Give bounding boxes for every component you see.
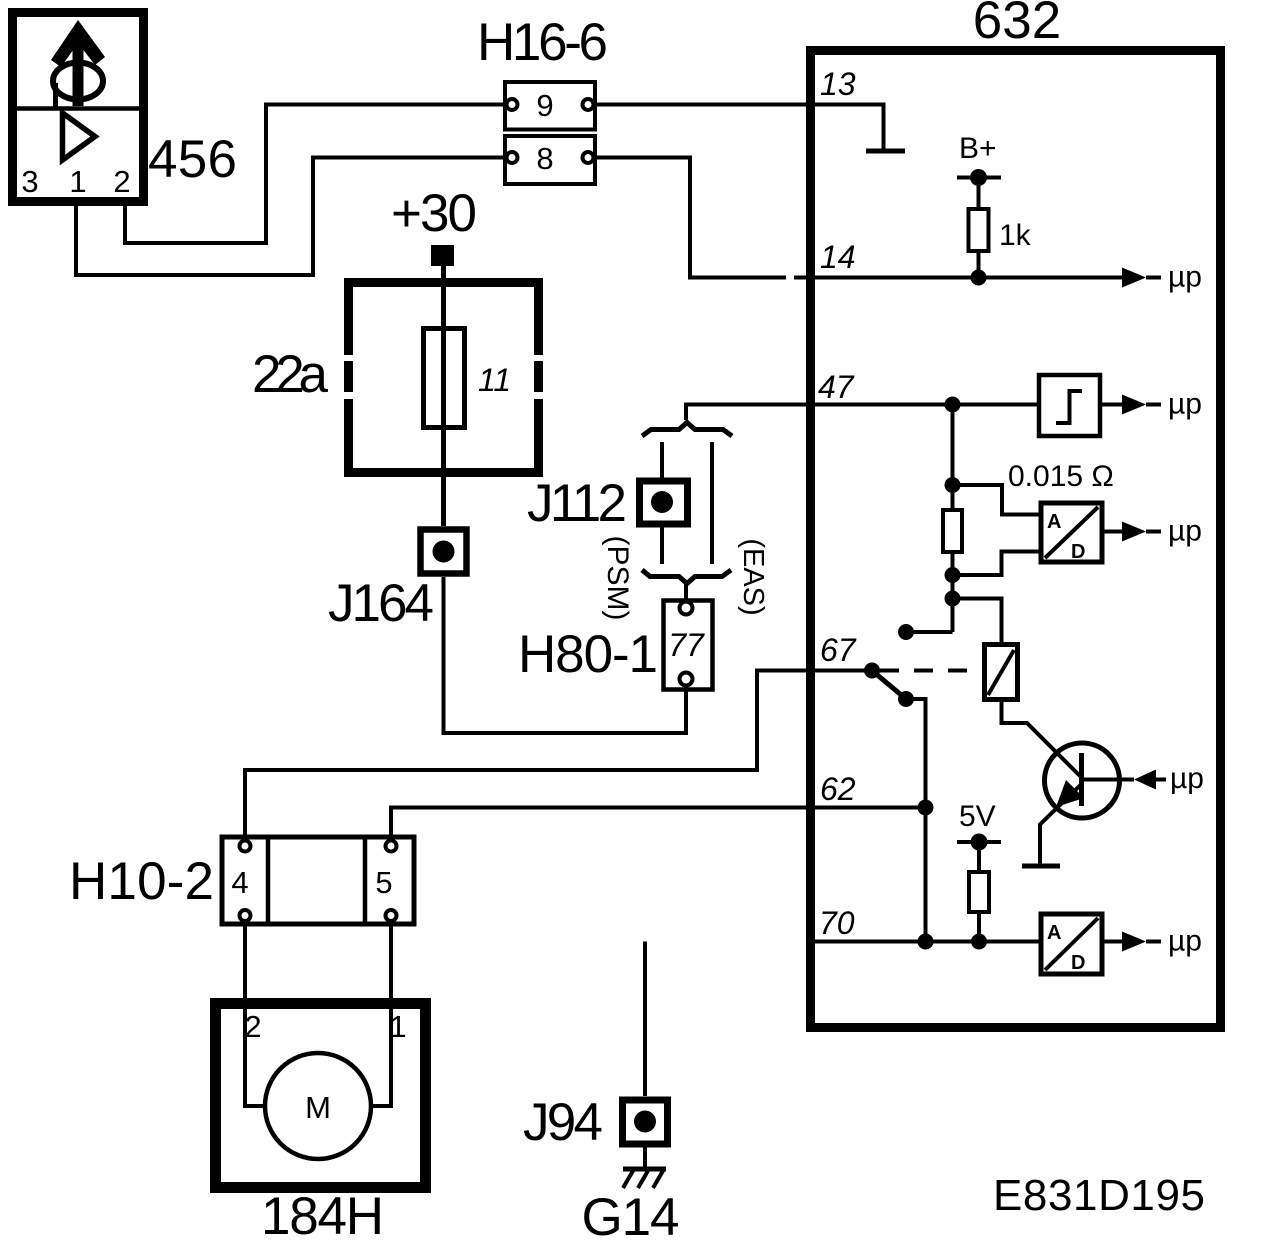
junction dot 70a bbox=[918, 934, 934, 950]
arrow into base bbox=[1134, 770, 1156, 790]
svg-text:1: 1 bbox=[69, 164, 86, 199]
connector H16-6 bottom half bbox=[505, 136, 595, 184]
B+ terminal dot bbox=[970, 169, 987, 186]
svg-text:456: 456 bbox=[148, 130, 237, 189]
wire pin13 internal bbox=[815, 105, 884, 150]
wire pin62 to H10-2 pin5 bbox=[391, 808, 810, 841]
wire pin70 internal bbox=[815, 940, 1041, 944]
svg-text:H10-2: H10-2 bbox=[69, 852, 214, 911]
svg-text:H16-6: H16-6 bbox=[477, 13, 608, 72]
svg-text:A: A bbox=[1047, 511, 1061, 533]
svg-text:2: 2 bbox=[244, 1009, 261, 1044]
wire pin70 to J94 bbox=[643, 942, 647, 1097]
splice J112 box bbox=[640, 481, 688, 524]
wire H10-2 pin4 to motor bbox=[245, 921, 265, 1106]
wire coil to transistor collector bbox=[1002, 700, 1081, 776]
arrow AD1 up bbox=[1122, 522, 1146, 542]
resistor 5V pullup bbox=[969, 872, 989, 912]
arrow tail AD1 bbox=[1146, 530, 1161, 534]
junction dot shunt bottom bbox=[945, 567, 961, 583]
H16-6 pin9 left circle bbox=[507, 99, 518, 110]
switch arm bbox=[872, 671, 906, 700]
wire J94 to ground bbox=[643, 1147, 647, 1169]
wire shunt bottom to AD1 bbox=[953, 552, 1040, 576]
step symbol bbox=[1056, 391, 1082, 423]
wire J164 to H80-1 bbox=[444, 577, 687, 733]
wire 456 pin1 to H16-6 pin8 bbox=[76, 158, 506, 276]
svg-text:µp: µp bbox=[1168, 515, 1202, 548]
wire pin47 bbox=[686, 405, 1037, 421]
wire shunt to switch contact bbox=[906, 630, 953, 634]
wire to relay coil bbox=[953, 599, 1002, 643]
svg-text:4: 4 bbox=[231, 865, 248, 900]
relay coil diagonal bbox=[988, 650, 1014, 695]
bottom brace bbox=[642, 570, 731, 584]
svg-text:1: 1 bbox=[389, 1009, 406, 1044]
svg-text:47: 47 bbox=[818, 369, 855, 405]
wire switch contact down bbox=[906, 699, 926, 942]
svg-text:E831D195: E831D195 bbox=[993, 1171, 1205, 1220]
wire AD2 to arrow bbox=[1103, 940, 1122, 944]
arrow 47 up bbox=[1122, 395, 1146, 415]
AD2 diagonal bbox=[1045, 918, 1098, 970]
wire +30 through fuse bbox=[441, 266, 446, 526]
junction dot pin14 bbox=[971, 270, 987, 286]
motor box 184H bbox=[216, 1004, 426, 1188]
svg-text:22a: 22a bbox=[252, 345, 329, 404]
456 sensor arrow shaft bbox=[73, 28, 84, 106]
svg-text:G14: G14 bbox=[582, 1188, 680, 1246]
H10-2 divider right bbox=[363, 837, 368, 924]
H10-2 divider left bbox=[266, 837, 271, 924]
arrow tail 47 bbox=[1146, 403, 1161, 407]
svg-text:9: 9 bbox=[536, 88, 553, 123]
wire shunt top to AD1 bbox=[953, 485, 1040, 515]
wire 47 to brace bbox=[686, 403, 810, 407]
transistor emitter bbox=[1040, 784, 1082, 864]
svg-text:184H: 184H bbox=[261, 1187, 384, 1246]
wire step to arrow bbox=[1100, 403, 1122, 407]
fusebox 22a dashed frame bottom bbox=[344, 468, 543, 477]
5V terminal bar bbox=[957, 840, 1001, 844]
svg-text:µp: µp bbox=[1168, 925, 1202, 958]
fusebox 22a left border bbox=[344, 282, 353, 473]
splice J94 dot bbox=[634, 1111, 656, 1133]
svg-text:13: 13 bbox=[820, 66, 856, 102]
connector H80-1 box bbox=[664, 601, 713, 690]
junction dot 62 bbox=[918, 800, 934, 816]
svg-text:14: 14 bbox=[820, 239, 856, 275]
shunt chain vertical bbox=[951, 405, 955, 633]
wire AD1 to arrow bbox=[1103, 530, 1122, 534]
comparator step box bbox=[1039, 375, 1100, 436]
fusebox 22a dashed frame top bbox=[344, 278, 543, 287]
svg-text:(EAS): (EAS) bbox=[737, 538, 769, 615]
H16-6 pin9 right circle bbox=[583, 99, 594, 110]
B+ terminal bar bbox=[957, 176, 1001, 180]
component 456 box bbox=[13, 13, 144, 202]
AD converter box 2 bbox=[1041, 914, 1102, 974]
switch lower contact dot bbox=[898, 691, 914, 707]
wire resistor to pin14 bbox=[977, 251, 981, 278]
svg-text:D: D bbox=[1071, 952, 1085, 974]
wire 456 pin2 to H16-6 pin9 bbox=[125, 105, 506, 244]
EAS right branch wire bbox=[710, 442, 714, 564]
H80-1 top circle bbox=[680, 602, 693, 615]
svg-text:11: 11 bbox=[478, 362, 511, 398]
wire H16-6 pin8 to 632 pin14 bbox=[594, 158, 810, 278]
AD1 diagonal bbox=[1045, 507, 1098, 558]
resistor 1k bbox=[969, 209, 989, 251]
transistor Q circle bbox=[1045, 743, 1120, 818]
svg-text:+30: +30 bbox=[391, 184, 477, 243]
svg-text:(PSM): (PSM) bbox=[601, 536, 634, 621]
ECU box 632 bbox=[811, 51, 1221, 1028]
junction dot coil feed bbox=[945, 591, 961, 607]
svg-text:8: 8 bbox=[536, 141, 553, 176]
AD converter box 1 bbox=[1041, 503, 1102, 562]
svg-text:77: 77 bbox=[668, 627, 705, 663]
svg-text:1k: 1k bbox=[999, 219, 1032, 252]
H80-1 bottom circle bbox=[680, 673, 693, 686]
emitter arrowhead bbox=[1056, 780, 1084, 807]
wire H16-6 pin9 to 632 pin13 bbox=[594, 103, 810, 107]
fuse 11 body bbox=[424, 329, 465, 428]
+30 terminal square bbox=[431, 245, 454, 266]
arrow tail pin14 bbox=[1146, 276, 1161, 280]
svg-text:67: 67 bbox=[820, 632, 857, 668]
switch common dot bbox=[864, 663, 880, 679]
junction dot shunt top bbox=[945, 477, 961, 493]
svg-text:µp: µp bbox=[1168, 388, 1202, 421]
svg-text:D: D bbox=[1071, 541, 1085, 563]
arrow AD2 up bbox=[1122, 932, 1146, 952]
J112 left branch wire bbox=[660, 442, 664, 564]
456 arrow head bbox=[51, 20, 105, 67]
svg-text:2: 2 bbox=[113, 164, 130, 199]
H10-2 pin5 top circle bbox=[386, 841, 397, 852]
svg-text:62: 62 bbox=[820, 771, 856, 807]
456 triangle symbol bbox=[63, 113, 96, 160]
wire pin67 bbox=[815, 669, 872, 673]
svg-text:µp: µp bbox=[1170, 762, 1204, 795]
wire H10-2 pin5 to motor bbox=[371, 921, 391, 1106]
splice J164 box bbox=[421, 530, 467, 574]
transistor base lead bbox=[1084, 778, 1134, 782]
svg-text:B+: B+ bbox=[959, 132, 997, 165]
chassis ground ticks bbox=[623, 1169, 664, 1188]
arrow tail base bbox=[1156, 778, 1166, 782]
shunt resistor 0.015 bbox=[943, 510, 962, 552]
emitter ground bar bbox=[1022, 864, 1060, 869]
svg-text:5V: 5V bbox=[959, 800, 996, 833]
svg-text:A: A bbox=[1047, 922, 1061, 944]
splice J94 box bbox=[623, 1100, 668, 1144]
chassis ground bar G14 bbox=[623, 1167, 666, 1172]
svg-text:70: 70 bbox=[819, 905, 855, 941]
arrow pin14 up bbox=[1122, 268, 1146, 288]
H16-6 pin8 right circle bbox=[583, 152, 594, 163]
456 ellipse bbox=[53, 63, 103, 100]
wire B+ to resistor bbox=[977, 178, 981, 210]
wire pin14 to up bbox=[815, 276, 1122, 280]
svg-text:J112: J112 bbox=[527, 474, 627, 533]
junction dot 70b bbox=[971, 934, 987, 950]
top brace bbox=[642, 423, 732, 437]
wire pin62 internal bbox=[815, 806, 926, 810]
svg-text:3: 3 bbox=[21, 164, 38, 199]
connector H10-2 box bbox=[222, 837, 414, 924]
wire resistor to pin70 bbox=[977, 912, 981, 942]
svg-text:0.015 Ω: 0.015 Ω bbox=[1008, 460, 1114, 493]
456 divider bbox=[15, 106, 141, 111]
H10-2 pin4 top circle bbox=[240, 841, 251, 852]
H16-6 pin8 left circle bbox=[507, 152, 518, 163]
svg-text:H80-1: H80-1 bbox=[518, 625, 658, 684]
svg-text:J94: J94 bbox=[523, 1093, 603, 1152]
H10-2 pin4 bottom circle bbox=[240, 910, 251, 921]
wire pin67 to H10-2 pin4 bbox=[245, 671, 810, 841]
junction dot 47 bbox=[945, 397, 961, 413]
H10-2 pin5 bottom circle bbox=[386, 910, 397, 921]
svg-text:J164: J164 bbox=[328, 574, 434, 633]
arrow tail AD2 bbox=[1146, 940, 1161, 944]
dashed actuation line bbox=[880, 669, 984, 673]
switch upper contact dot bbox=[898, 624, 914, 640]
svg-text:5: 5 bbox=[375, 865, 392, 900]
motor circle bbox=[265, 1053, 371, 1159]
svg-text:µp: µp bbox=[1168, 261, 1202, 294]
relay coil box bbox=[985, 645, 1018, 700]
5V terminal dot bbox=[971, 834, 988, 851]
svg-text:M: M bbox=[305, 1090, 331, 1125]
456 ellipse tail bbox=[53, 83, 58, 107]
svg-text:632: 632 bbox=[973, 0, 1061, 50]
brace stub to H80-1 bbox=[684, 584, 688, 601]
splice J112 dot bbox=[651, 491, 673, 513]
connector H16-6 top half bbox=[505, 82, 595, 130]
transistor base bar bbox=[1079, 753, 1084, 806]
fusebox 22a right border bbox=[534, 282, 543, 473]
ground bar pin13 bbox=[866, 149, 905, 154]
wire 5V to resistor bbox=[977, 842, 981, 872]
splice J164 dot bbox=[433, 541, 455, 563]
